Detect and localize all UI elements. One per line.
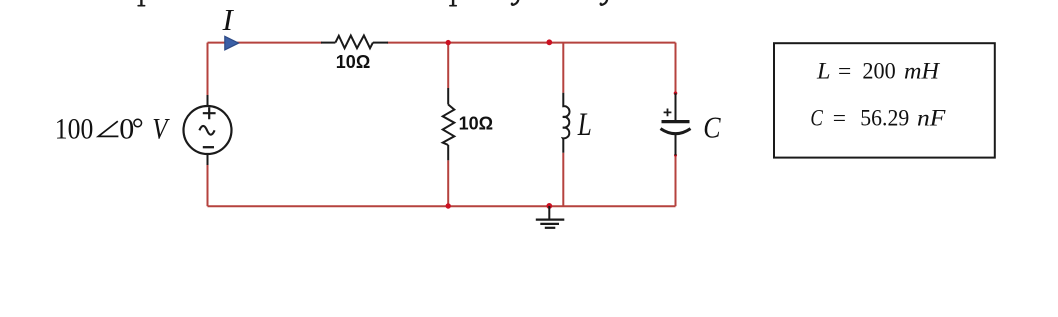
svg-text:=: = [838,58,851,84]
svg-text:10Ω: 10Ω [459,114,493,134]
svg-text:L: L [816,58,831,84]
svg-text:nF: nF [917,106,946,132]
svg-text:200: 200 [862,58,895,84]
svg-text:100: 100 [55,112,94,145]
svg-text:56.29: 56.29 [860,106,909,132]
svg-text:10Ω: 10Ω [336,52,370,72]
svg-text:mH: mH [904,58,941,84]
svg-text:V: V [152,112,170,145]
svg-text:°: ° [132,112,144,145]
svg-text:C: C [810,106,823,132]
svg-text:C: C [703,110,721,145]
svg-text:=: = [833,106,846,132]
svg-text:L: L [577,107,592,143]
svg-text:I: I [222,2,235,37]
